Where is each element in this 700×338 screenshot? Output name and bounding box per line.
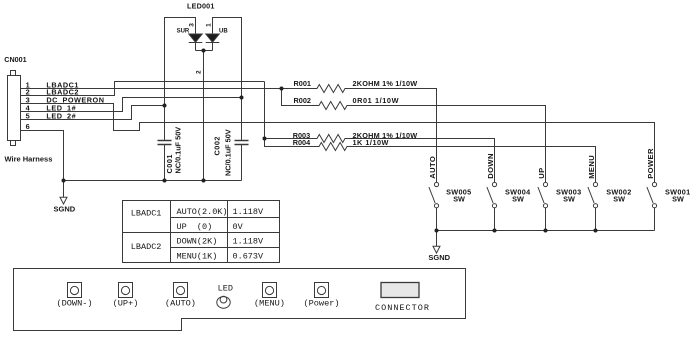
junction node LED_1#/LED001 pin1: [240, 96, 244, 100]
junction node SGND rail / pin6: [62, 179, 66, 183]
svg-text:5: 5: [26, 111, 30, 120]
svg-text:MENU: MENU: [587, 155, 596, 179]
switch SW002 MENU: [588, 182, 598, 230]
connector CN001 body: [8, 71, 21, 146]
svg-text:2KOHM 1% 1/10W: 2KOHM 1% 1/10W: [353, 79, 418, 88]
svg-text:C002: C002: [213, 136, 222, 155]
table grid: [123, 201, 280, 263]
svg-text:SW: SW: [453, 195, 465, 204]
switch SW003 UP: [538, 182, 548, 230]
svg-text:SW: SW: [613, 195, 625, 204]
wire switch common rail: [437, 231, 655, 247]
svg-text:LED_2#: LED_2#: [46, 111, 76, 120]
svg-text:2: 2: [195, 70, 202, 74]
wire LED001 right side (pin1): [213, 18, 242, 141]
svg-text:LBADC2: LBADC2: [131, 242, 162, 252]
diode SUR (left): [189, 34, 203, 51]
junction node SW005/SGND rail: [435, 229, 439, 233]
LED indicator symbol: [217, 296, 230, 308]
svg-text:NC/0.1uF 50V: NC/0.1uF 50V: [224, 129, 233, 176]
svg-text:Wire Harness: Wire Harness: [5, 155, 53, 164]
wire LED001 left side (pin3): [165, 18, 196, 141]
wire LBADC1 row1: [21, 88, 282, 90]
junction node SW002/SGND rail: [594, 229, 598, 233]
svg-text:6: 6: [26, 122, 30, 131]
capacitor C001: [158, 141, 172, 181]
panel outline: [14, 269, 466, 331]
wire LED_1# row4 to LED right side: [21, 98, 242, 112]
svg-text:SUR: SUR: [177, 28, 190, 34]
CONNECTOR block: [381, 283, 419, 298]
button (Power): [315, 283, 329, 298]
button (MENU): [263, 283, 277, 298]
junction node LBADC2/R003/R004: [263, 137, 267, 141]
resistor R003: [265, 82, 495, 183]
resistor R001: [282, 85, 437, 183]
svg-text:R004: R004: [293, 138, 311, 147]
wire LBADC2 row2 with bypass to top line: [21, 82, 265, 96]
wire pin6 to ground: [21, 131, 64, 198]
svg-text:UP: UP: [537, 167, 546, 178]
svg-text:DOWN(2K): DOWN(2K): [177, 236, 218, 246]
switch SW001 POWER: [647, 182, 657, 230]
wire common cathode pin2: [196, 51, 213, 181]
svg-text:AUTO(2.0K): AUTO(2.0K): [177, 207, 228, 217]
svg-text:(AUTO): (AUTO): [165, 298, 196, 308]
svg-text:CN001: CN001: [4, 55, 26, 64]
svg-text:POWER: POWER: [646, 148, 655, 179]
svg-text:LBADC1: LBADC1: [131, 208, 162, 218]
svg-text:0R01 1/10W: 0R01 1/10W: [353, 96, 400, 105]
switch SW004 DOWN: [487, 182, 497, 230]
junction node LED001 common cathode pin2: [202, 49, 206, 53]
ground SGND left arrow: [60, 197, 67, 204]
svg-text:(Power): (Power): [303, 298, 339, 308]
junction node SW004/SGND rail: [493, 229, 497, 233]
diode UB (right): [206, 34, 220, 51]
svg-text:LED001: LED001: [187, 2, 215, 11]
junction node LED_2#/LED001 pin3: [163, 104, 167, 108]
svg-text:LED: LED: [218, 284, 233, 294]
junction node LBADC1/R001/R002: [280, 87, 284, 91]
svg-text:CONNECTOR: CONNECTOR: [375, 303, 430, 313]
svg-text:NC/0.1uF 50V: NC/0.1uF 50V: [174, 127, 183, 174]
button (DOWN-): [68, 283, 82, 298]
svg-text:AUTO: AUTO: [428, 156, 437, 179]
svg-text:UB: UB: [219, 28, 228, 34]
svg-text:SGND: SGND: [428, 253, 450, 262]
ground SGND right arrow: [433, 246, 440, 253]
svg-text:1K 1/10W: 1K 1/10W: [353, 138, 389, 147]
junction node C001/SGND rail: [163, 179, 167, 183]
svg-text:0V: 0V: [233, 222, 244, 232]
svg-text:1.118V: 1.118V: [233, 236, 265, 246]
svg-text:1: 1: [206, 23, 213, 27]
resistor R002: [282, 89, 546, 183]
svg-text:(UP+): (UP+): [113, 298, 139, 308]
svg-text:MENU(1K): MENU(1K): [177, 251, 218, 261]
svg-text:DOWN: DOWN: [486, 153, 495, 179]
svg-text:UP (0): UP (0): [177, 222, 213, 232]
capacitor C002: [235, 141, 249, 181]
wire LED_2# row5 to LED left side: [21, 106, 165, 120]
svg-text:0.673V: 0.673V: [233, 251, 265, 261]
svg-text:SW: SW: [672, 195, 684, 204]
svg-text:R002: R002: [294, 96, 311, 105]
svg-text:SW: SW: [512, 195, 524, 204]
resistor R004: [265, 139, 596, 183]
svg-text:(DOWN-): (DOWN-): [56, 298, 92, 308]
svg-text:SGND: SGND: [54, 205, 76, 214]
svg-text:3: 3: [188, 23, 195, 27]
wire DC_POWERON row3 with jog to POWER switch: [21, 104, 655, 183]
svg-text:R001: R001: [294, 79, 311, 88]
svg-text:1.118V: 1.118V: [233, 207, 265, 217]
junction node pin2 wire/SGND rail: [202, 179, 206, 183]
switch SW005 AUTO: [429, 182, 439, 230]
panel texts: [56, 284, 430, 313]
button (AUTO): [174, 283, 188, 298]
wire ground rail: [64, 180, 242, 182]
svg-text:SW: SW: [563, 195, 575, 204]
svg-text:(MENU): (MENU): [254, 298, 285, 308]
button (UP+): [119, 283, 133, 298]
junction node SW003/SGND rail: [544, 229, 548, 233]
